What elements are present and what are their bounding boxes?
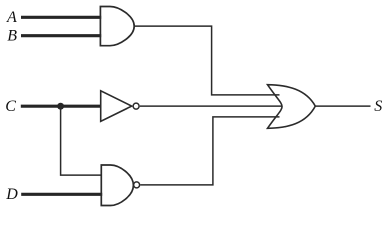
svg-text:D: D [5, 186, 18, 203]
svg-text:S: S [374, 98, 382, 115]
and-gate U1 [100, 7, 134, 46]
svg-text:B: B [7, 28, 17, 45]
wire AND output to OR input [134, 26, 279, 95]
inverter U2 bubble [133, 103, 139, 109]
junction node on C [57, 103, 64, 110]
wire A [21, 16, 101, 19]
wire C branch to NAND [61, 106, 102, 175]
nand-gate U3 bubble [134, 182, 140, 188]
nand-gate U3 body [101, 165, 133, 206]
wire S output [315, 105, 370, 107]
svg-text:A: A [6, 9, 17, 26]
or-gate U4 [268, 85, 316, 129]
wire B [21, 34, 101, 37]
inverter U2 triangle [101, 91, 132, 122]
wire C [21, 105, 102, 108]
wire D [21, 193, 102, 196]
svg-text:C: C [5, 98, 16, 115]
wire NOT output to OR input [140, 105, 283, 107]
wire NAND output to OR input [140, 117, 279, 185]
